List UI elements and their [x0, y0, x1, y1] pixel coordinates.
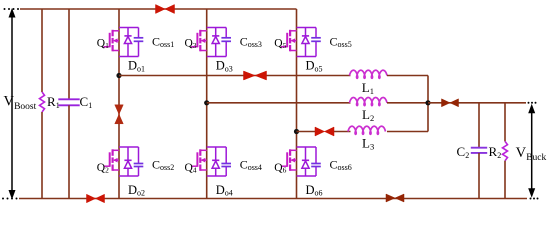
- svg-text:1: 1: [370, 86, 374, 96]
- body diode Do6 and capacitor Coss6 branch: [297, 147, 321, 176]
- label Q5: [274, 38, 286, 51]
- label Q1: [97, 38, 109, 51]
- svg-text:oss6: oss6: [338, 163, 352, 172]
- svg-text:C: C: [152, 35, 160, 49]
- wire top rail (positive bus): [20, 8, 297, 10]
- body diode Do5 and capacitor Coss5 branch: [297, 28, 321, 57]
- VBuck voltage arrow: [528, 104, 535, 198]
- inductor L3: [348, 126, 386, 134]
- svg-text:D: D: [306, 59, 315, 73]
- transistor Q1 (MOSFET): [104, 30, 120, 52]
- svg-text:L: L: [362, 80, 370, 95]
- svg-text:C: C: [80, 94, 89, 109]
- node inductor output junction: [425, 100, 430, 105]
- wire leg1 trunk midpoint to bottom cell: [118, 76, 120, 151]
- node leg1 midpoint: [116, 73, 121, 78]
- label VBuck: [516, 145, 547, 163]
- wire leg3 trunk midpoint to bottom cell: [296, 132, 298, 151]
- wire leg3 trunk through top cell: [296, 31, 298, 132]
- svg-text:C: C: [240, 35, 248, 49]
- transistor Q6 (MOSFET): [281, 149, 297, 171]
- svg-text:R: R: [489, 144, 498, 159]
- wire R2 branch lower: [504, 161, 506, 199]
- wire R2 branch upper: [504, 103, 506, 142]
- transistor Q2 (MOSFET): [104, 149, 120, 171]
- body diode Do3 and capacitor Coss3 branch: [207, 28, 231, 57]
- label Do4: [216, 183, 233, 198]
- label Coss6: [330, 158, 352, 172]
- svg-text:V: V: [516, 145, 527, 161]
- wire L2 to junction: [387, 102, 428, 104]
- dotted wire continuation top-left: [4, 8, 20, 10]
- svg-text:L: L: [362, 136, 370, 151]
- svg-text:R: R: [47, 94, 56, 109]
- label Q4: [185, 162, 197, 175]
- wire C1 branch upper: [68, 9, 70, 99]
- current arrow on L3 wire: [315, 127, 334, 136]
- wire R1 branch upper: [41, 9, 43, 92]
- svg-text:Boost: Boost: [14, 102, 37, 112]
- current arrow on bottom rail right: [386, 194, 404, 202]
- wire leg1 drain from top rail: [118, 9, 120, 31]
- label Coss2: [152, 158, 174, 172]
- resistor R2: [503, 141, 508, 160]
- svg-text:D: D: [128, 59, 137, 73]
- svg-text:L: L: [362, 107, 370, 122]
- resistor R1: [40, 92, 45, 112]
- wire leg3 drain from top rail: [296, 9, 298, 31]
- wire L3 arrow to coil: [334, 131, 351, 133]
- svg-text:D: D: [216, 183, 225, 197]
- svg-text:oss3: oss3: [248, 40, 262, 49]
- wire leg1 midpoint to L1: [119, 75, 351, 77]
- svg-text:D: D: [216, 59, 225, 73]
- svg-text:oss4: oss4: [248, 163, 262, 172]
- svg-text:C: C: [152, 158, 160, 172]
- current arrow on top rail: [156, 5, 175, 14]
- current arrow on leg1 (vertical): [115, 105, 124, 124]
- wire R1 branch lower: [41, 112, 43, 199]
- wire leg3 trunk to bottom rail: [296, 150, 298, 198]
- label Do2: [128, 183, 145, 198]
- svg-text:C: C: [240, 158, 248, 172]
- svg-text:D: D: [306, 183, 315, 197]
- label R2: [489, 144, 502, 160]
- svg-text:2: 2: [105, 166, 109, 175]
- current arrow on output wire: [442, 99, 459, 107]
- body diode Do4 and capacitor Coss4 branch: [207, 147, 231, 176]
- label Q6: [274, 162, 286, 175]
- wire leg1 trunk through top cell: [118, 31, 120, 76]
- transistor Q5 (MOSFET): [281, 30, 297, 52]
- svg-text:oss1: oss1: [160, 40, 174, 49]
- dotted wire continuation bottom-left: [2, 198, 18, 200]
- current arrow on L1 wire: [244, 71, 267, 80]
- label C2: [457, 144, 470, 160]
- capacitor C2: [471, 148, 487, 153]
- label L2: [362, 107, 374, 123]
- body diode Do2 and capacitor Coss2 branch: [119, 147, 143, 176]
- svg-text:2: 2: [370, 113, 374, 123]
- wire L3 to junction: [387, 103, 428, 132]
- label VBoost: [4, 94, 37, 112]
- svg-text:oss2: oss2: [160, 163, 174, 172]
- wire C1 branch lower: [68, 105, 70, 198]
- inductor L2: [350, 98, 388, 106]
- label Do1: [128, 59, 145, 74]
- svg-text:D: D: [128, 183, 137, 197]
- svg-text:C: C: [330, 35, 338, 49]
- capacitor C1: [58, 99, 79, 105]
- svg-text:o6: o6: [315, 189, 323, 198]
- svg-text:o2: o2: [137, 189, 145, 198]
- svg-text:V: V: [4, 94, 15, 110]
- dotted wire continuation bottom-right: [530, 198, 539, 200]
- svg-text:6: 6: [283, 166, 287, 175]
- svg-text:o5: o5: [315, 64, 323, 73]
- wire bottom rail (return bus): [19, 198, 527, 200]
- label L3: [362, 136, 374, 152]
- svg-text:o3: o3: [225, 64, 233, 73]
- svg-text:2: 2: [497, 151, 501, 160]
- svg-text:4: 4: [193, 166, 197, 175]
- label Coss1: [152, 35, 174, 49]
- label R1: [47, 94, 60, 110]
- svg-text:o4: o4: [225, 189, 233, 198]
- current arrow on bottom rail left: [87, 194, 105, 203]
- svg-text:5: 5: [283, 41, 287, 50]
- node leg2 midpoint: [204, 100, 209, 105]
- wire junction to output: [428, 102, 526, 104]
- wire leg1 trunk to bottom rail: [118, 150, 120, 198]
- svg-text:3: 3: [370, 141, 374, 151]
- svg-text:C: C: [457, 144, 466, 159]
- label Coss3: [240, 35, 262, 49]
- svg-text:2: 2: [465, 151, 469, 160]
- wire leg2 trunk midpoint to bottom cell: [206, 103, 208, 151]
- label Coss5: [330, 35, 352, 49]
- dotted wire continuation top-right: [528, 102, 537, 104]
- wire L1 to junction: [387, 76, 428, 103]
- svg-text:3: 3: [193, 41, 197, 50]
- VBoost voltage arrow: [9, 8, 16, 200]
- label Do6: [306, 183, 323, 198]
- wire leg2 trunk to bottom rail: [206, 150, 208, 198]
- svg-text:oss5: oss5: [338, 40, 352, 49]
- label Do5: [306, 59, 323, 74]
- transistor Q3 (MOSFET): [191, 30, 207, 52]
- svg-text:Buck: Buck: [526, 153, 546, 163]
- label Do3: [216, 59, 233, 74]
- label Q2: [97, 162, 109, 175]
- wire leg2 midpoint to L2: [207, 102, 351, 104]
- inductor L1: [350, 70, 388, 78]
- label Coss4: [240, 158, 262, 172]
- svg-text:1: 1: [105, 41, 109, 50]
- wire C2 branch upper: [478, 103, 480, 148]
- svg-text:C: C: [330, 158, 338, 172]
- node leg3 midpoint: [294, 129, 299, 134]
- svg-text:1: 1: [88, 101, 92, 110]
- label L1: [362, 80, 374, 96]
- body diode Do1 and capacitor Coss1 branch: [119, 28, 143, 57]
- label Q3: [185, 38, 197, 51]
- label C1: [80, 94, 93, 110]
- svg-text:o1: o1: [137, 64, 145, 73]
- transistor Q4 (MOSFET): [191, 149, 207, 171]
- wire leg2 drain from top rail: [206, 9, 208, 31]
- wire C2 branch lower: [478, 153, 480, 199]
- wire leg2 trunk through top cell: [206, 31, 208, 103]
- wire leg3 midpoint to L3: [297, 131, 316, 133]
